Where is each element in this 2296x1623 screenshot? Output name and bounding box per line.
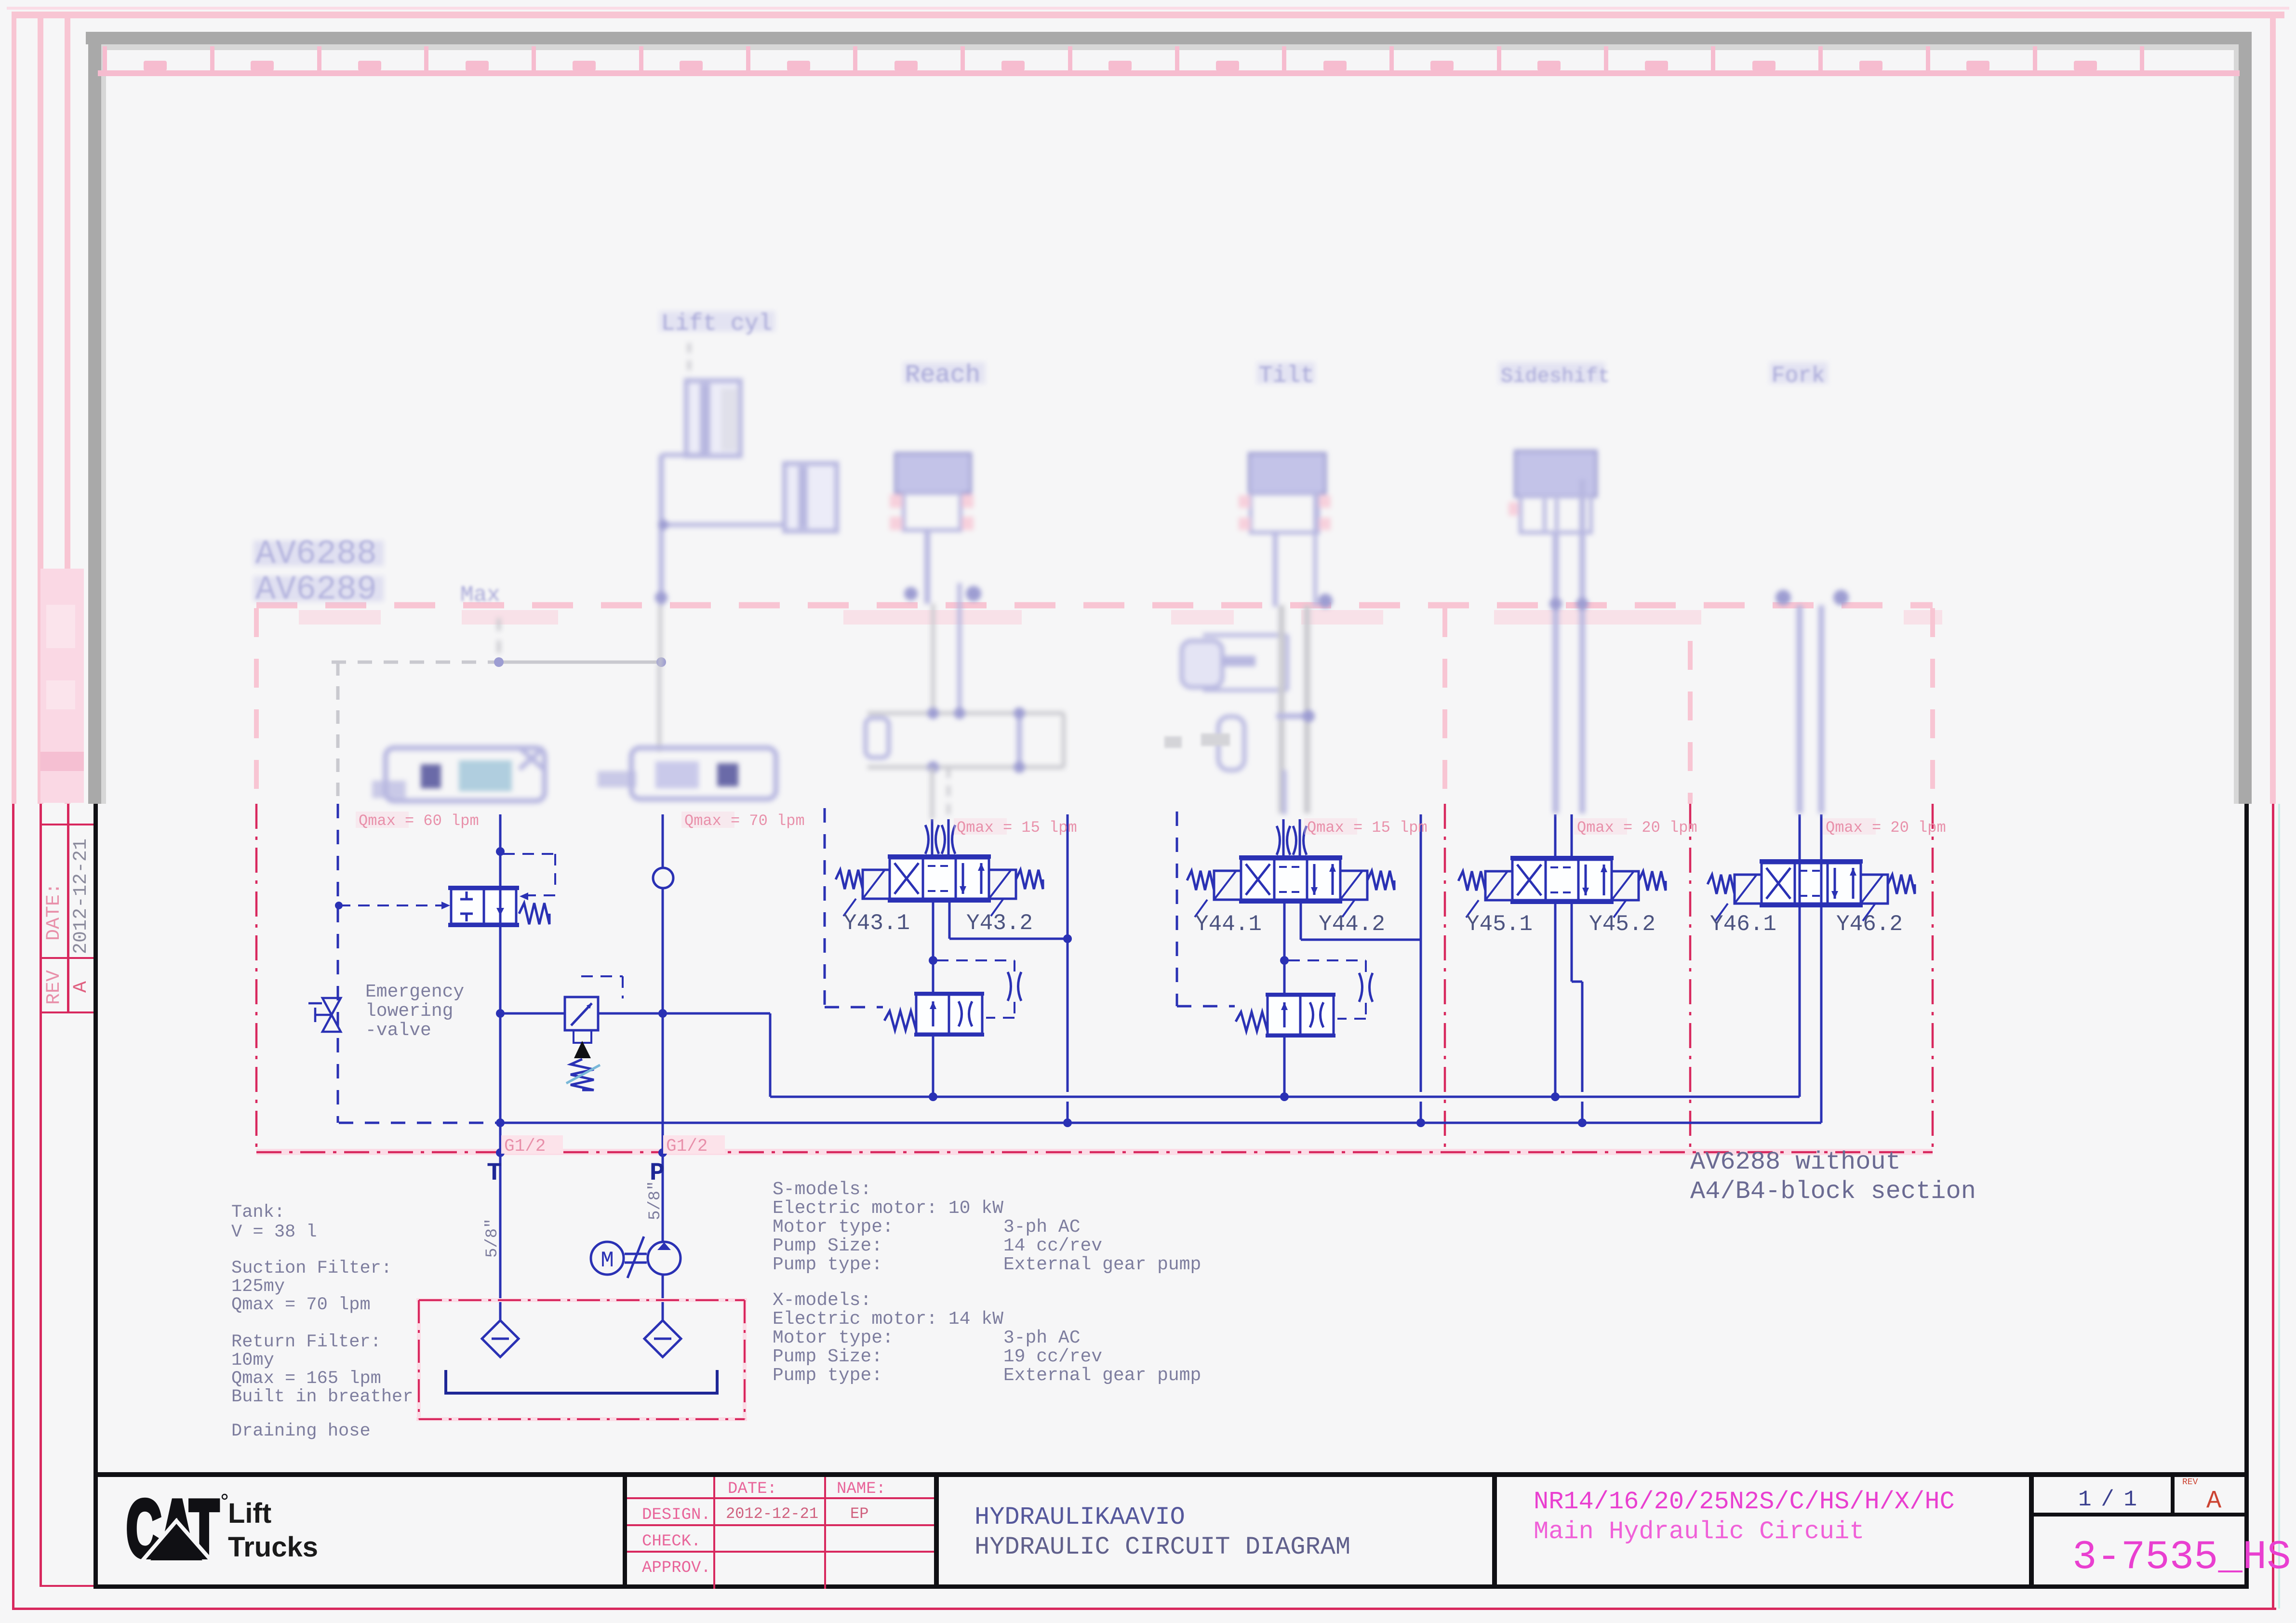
AV block boundary right edge x=4010: [1930, 608, 1935, 804]
valve block Y43 dashed boundary: [824, 808, 826, 1007]
scan wire lift manifold: [663, 523, 786, 527]
valve Y45 left solenoid and spring: [1485, 871, 1512, 900]
AV block boundary left edge x=532: [254, 608, 259, 804]
scan overlay gray frame right band: [2239, 32, 2252, 804]
valve Y44 center cell marks: [1279, 866, 1302, 868]
valve Y44 left solenoid and spring: [1214, 871, 1241, 900]
gear pump P1: [648, 1242, 681, 1275]
svg-text:Y46.1: Y46.1: [1710, 912, 1776, 937]
AV block boundary divider x=3507: [1688, 641, 1693, 804]
svg-text:2012-12-21: 2012-12-21: [726, 1505, 818, 1523]
scan label Tilt: [1257, 362, 1315, 384]
svg-text:Qmax = 20 lpm: Qmax = 20 lpm: [1826, 819, 1946, 837]
node lift pilot junction (washed): [494, 657, 504, 667]
revision table cell lines: [40, 824, 96, 825]
svg-text:APPROV.: APPROV.: [642, 1559, 711, 1577]
valve Y43 center cell marks: [928, 865, 951, 867]
title table crimson lines: [627, 1497, 934, 1499]
node Y45 to return bus: [1578, 1118, 1587, 1127]
svg-text:REV: REV: [43, 970, 65, 1005]
scan washed T riser dashes: [497, 618, 501, 662]
svg-text:Pump type: External: Pump type: External gear pump: [773, 1254, 1201, 1275]
svg-text:G1/2: G1/2: [666, 1136, 707, 1156]
valve Y46 feed lines: [1799, 814, 1801, 904]
scan junction blob: [655, 591, 667, 604]
title block divider (product | number): [2029, 1472, 2034, 1589]
relief valve poppet arrow: [574, 1041, 591, 1058]
svg-text:Tank:: Tank:: [231, 1202, 285, 1223]
scan overlay gray frame top band: [86, 32, 2252, 44]
valve Y43 left solenoid and spring: [863, 870, 890, 899]
svg-text:Suction Filter:: Suction Filter:: [231, 1258, 392, 1278]
node pilot tap on block boundary: [335, 902, 343, 909]
valve block dashed boundary left x=701 (washed above): [336, 662, 340, 804]
svg-text:Return Filter:: Return Filter:: [231, 1332, 381, 1352]
svg-text:HYDRAULIKAAVIO: HYDRAULIKAAVIO: [974, 1503, 1185, 1531]
svg-text:REV: REV: [2182, 1477, 2198, 1487]
node C44 to pressure bus: [1280, 1092, 1289, 1101]
svg-text:Electric motor: 14 kW: Electric motor: 14 kW: [773, 1309, 1003, 1330]
title block divider (titles | product): [1492, 1472, 1497, 1589]
scan reach feed dashes: [930, 767, 934, 819]
drawing frame bottom edge: [93, 1584, 2249, 1589]
svg-text:1 / 1: 1 / 1: [2078, 1487, 2136, 1512]
scan dashed stub under label: [688, 343, 691, 381]
relief valve pilot dashes: [581, 975, 623, 977]
wire Y44 B-line to trunk: [1300, 900, 1302, 940]
svg-text:HYDRAULIC CIRCUIT DIAGRAM: HYDRAULIC CIRCUIT DIAGRAM: [974, 1533, 1350, 1561]
svg-text:DATE:: DATE:: [728, 1480, 777, 1498]
AV block boundary top dashed line (washed): [256, 602, 1933, 609]
outer page border left: [12, 18, 16, 804]
scan lift cylinder 1: [686, 381, 740, 456]
wire Y44 trunk x=2948: [1420, 814, 1422, 1092]
wire Y45 A-line to pressure bus: [1554, 901, 1557, 1097]
port label G1/2 (T): [501, 1135, 563, 1154]
svg-text:NAME:: NAME:: [837, 1480, 886, 1498]
drawing frame left edge: [93, 804, 98, 1589]
ruler ticks and column number blobs: [103, 46, 107, 71]
wire T riser x=1038: [499, 814, 502, 887]
svg-text:Trucks: Trucks: [228, 1531, 318, 1563]
svg-text:A: A: [70, 981, 92, 993]
flow label Qmax = 70 lpm: [681, 811, 734, 828]
svg-text:Motor type: 3-ph AC: Motor type: 3-ph AC: [773, 1328, 1081, 1348]
title block divider (table | titles): [934, 1472, 939, 1589]
scan tilt rod lines: [1273, 532, 1278, 607]
valve Y46 center cell marks: [1800, 870, 1823, 872]
svg-text:V = 38 l: V = 38 l: [231, 1222, 317, 1242]
svg-text:NR14/16/20/25N2S/C/HS/H/X/HC: NR14/16/20/25N2S/C/HS/H/X/HC: [1534, 1488, 1955, 1516]
valve Y45 parallel-arrows cell: [1585, 865, 1587, 895]
scan reach cylinder cap: [895, 453, 971, 493]
svg-text:Lift: Lift: [228, 1498, 271, 1529]
scan text AV6288: [254, 541, 384, 566]
drawing frame right edge: [2244, 804, 2249, 1589]
outer page border bottom: [12, 1608, 2276, 1610]
flow label Qmax = 20 lpm: [1823, 818, 1876, 835]
port label G1/2 (P): [663, 1135, 725, 1154]
svg-text:Main Hydraulic Circuit: Main Hydraulic Circuit: [1534, 1517, 1865, 1546]
valve V1 riser through right cell: [499, 889, 502, 924]
svg-text:CHECK.: CHECK.: [642, 1532, 701, 1551]
flow label Qmax = 15 lpm: [954, 818, 1007, 835]
svg-text:M: M: [601, 1248, 614, 1273]
svg-text:AV6289: AV6289: [255, 571, 377, 609]
revision sidebar bottom stub: [40, 1585, 95, 1587]
outer page border top (washed pink): [7, 7, 2289, 10]
valve V1 spring: [519, 903, 549, 924]
revision sidebar line x=141: [65, 18, 70, 804]
compensator valve C43 body: [916, 995, 982, 1034]
restrictor in C44 pilot: [1359, 973, 1373, 1002]
svg-text:Tilt: Tilt: [1259, 363, 1314, 389]
svg-text:Qmax = 60 lpm: Qmax = 60 lpm: [359, 812, 479, 830]
compensator C43 pilot dashes: [937, 959, 1015, 961]
wire C43 to pressure bus: [932, 1034, 934, 1097]
compensator C44 pilot dashes: [1288, 959, 1366, 961]
scan washed lift riser: [658, 605, 662, 665]
flow label Qmax = 60 lpm: [356, 811, 409, 828]
svg-text:Y43.1: Y43.1: [843, 911, 910, 936]
title block top line: [93, 1472, 2249, 1477]
valve Y44 feed restrictors: [1282, 819, 1285, 859]
svg-text:EP: EP: [850, 1505, 868, 1523]
compensator C43 spring: [884, 1011, 916, 1030]
scan reach rod: [924, 530, 930, 604]
restrictor above Y44 left: [1277, 826, 1290, 855]
valve block dashed boundary bottom y=2330: [339, 1122, 499, 1124]
scan sideshift cylinder cap: [1515, 451, 1596, 496]
title block number cell top line: [2029, 1513, 2249, 1517]
scan sideshift risers: [1553, 532, 1559, 813]
scan lowering valve blob: [386, 748, 545, 801]
scan label Sideshift: [1499, 362, 1605, 384]
svg-text:125my: 125my: [231, 1277, 285, 1297]
svg-text:10my: 10my: [231, 1350, 274, 1370]
scan label Reach: [903, 362, 985, 384]
node Y45 to pressure bus: [1551, 1092, 1560, 1101]
valve Y43 parallel-arrows cell: [962, 863, 964, 894]
svg-text:2012-12-21: 2012-12-21: [70, 838, 92, 954]
ruler pink line: [98, 70, 2240, 76]
svg-text:Built in breather: Built in breather: [231, 1387, 413, 1407]
node T riser relief line junction: [496, 1009, 505, 1018]
svg-text:A4/B4-block section: A4/B4-block section: [1690, 1177, 1976, 1206]
valve Y46 parallel-arrows cell: [1834, 868, 1836, 899]
svg-text:Qmax = 20 lpm: Qmax = 20 lpm: [1577, 819, 1697, 837]
svg-text:Y46.2: Y46.2: [1836, 912, 1903, 937]
svg-text:Pump Size: 19 cc/rev: Pump Size: 19 cc/rev: [773, 1346, 1102, 1367]
wire P riser x=1375: [662, 814, 664, 1241]
scan tilt risers washed: [1279, 605, 1285, 813]
svg-text:Max: Max: [460, 583, 500, 608]
tank boundary dash-dot rectangle: [416, 1298, 747, 1302]
valve block Y44 dashed boundary: [1176, 811, 1178, 1006]
wire pressure bus y=2276: [770, 1096, 1800, 1098]
valve Y46 right solenoid and spring: [1861, 875, 1888, 904]
scan tilt cylinder cap: [1249, 453, 1325, 493]
svg-text:Reach: Reach: [905, 361, 980, 389]
node P riser relief junction: [658, 1009, 667, 1018]
node Y43 trunk to return bus: [1063, 1118, 1072, 1127]
svg-text:Sideshift: Sideshift: [1501, 365, 1610, 388]
node T riser pilot tap: [496, 847, 505, 856]
svg-text:5/8": 5/8": [483, 1218, 502, 1258]
AV block boundary bottom dash-dot line y=2391: [256, 1149, 1933, 1155]
svg-text:Y43.2: Y43.2: [966, 911, 1033, 936]
node lift supply junction (washed): [656, 657, 666, 667]
svg-text:AV6288: AV6288: [255, 535, 377, 573]
scan lift cylinder 2: [785, 464, 837, 531]
CAT logo registered mark: [222, 1494, 227, 1499]
compensator C44 spring: [1236, 1012, 1268, 1031]
svg-text:Draining hose: Draining hose: [231, 1421, 371, 1441]
flow label Qmax = 15 lpm: [1304, 818, 1357, 835]
svg-text:Qmax = 15 lpm: Qmax = 15 lpm: [1307, 819, 1428, 837]
valve Y45 crossed-arrows cell: [1517, 865, 1541, 895]
wire P feed drop x=1598: [769, 1013, 772, 1097]
scan text AV6289: [254, 576, 384, 601]
svg-text:Y44.2: Y44.2: [1319, 912, 1385, 937]
svg-text:3-7535_HS: 3-7535_HS: [2072, 1535, 2291, 1581]
valve Y44 crossed-arrows cell: [1246, 864, 1270, 895]
flow label Qmax = 20 lpm: [1574, 818, 1627, 835]
scan fork port blobs: [1775, 590, 1791, 605]
scan P-line valve blob: [631, 748, 776, 799]
scan wash over revision sidebar: [40, 569, 84, 803]
valve Y43 feed restrictors: [931, 819, 934, 858]
suction filter F1 (diamond): [482, 1320, 519, 1357]
wire Y44 A-line down: [1283, 900, 1286, 996]
scan tilt check manifold: [1203, 633, 1287, 637]
svg-text:Qmax = 70 lpm: Qmax = 70 lpm: [684, 812, 805, 830]
svg-text:Y45.1: Y45.1: [1466, 912, 1533, 937]
wire Y43 A-line down: [932, 899, 934, 995]
svg-text:lowering: lowering: [365, 1001, 453, 1022]
scan sideshift cylinder body: [1521, 496, 1591, 532]
valve V1 pilot dashed line from block edge: [339, 905, 447, 906]
valve Y45 feed lines: [1554, 814, 1557, 860]
valve Y43 right solenoid and spring: [989, 870, 1016, 899]
proportional lowering valve V1 body: [451, 889, 516, 924]
motor-pump coupling: [625, 1253, 647, 1255]
emergency lowering valve: [308, 998, 341, 1032]
svg-text:Qmax = 15 lpm: Qmax = 15 lpm: [957, 819, 1077, 837]
svg-text:Qmax = 165 lpm: Qmax = 165 lpm: [231, 1369, 381, 1389]
electric motor M1: [591, 1242, 624, 1275]
scan reach manifold: [868, 711, 1064, 715]
tank T1: [446, 1370, 717, 1393]
node Y43 trunk junction: [1063, 934, 1072, 943]
scan label Fork: [1770, 362, 1828, 384]
svg-text:T: T: [487, 1159, 502, 1187]
valve V1 pilot dashed rectangle: [503, 853, 555, 855]
title block divider (logo | table): [623, 1472, 627, 1589]
node Y44 trunk to return bus: [1416, 1118, 1425, 1127]
valve Y46 left solenoid and spring: [1735, 875, 1762, 904]
outer page border right: [2270, 18, 2276, 804]
svg-text:Emergency: Emergency: [365, 982, 464, 1002]
scan misc gray dashes: [1164, 736, 1182, 748]
svg-text:DESIGN.: DESIGN.: [642, 1506, 711, 1524]
scan overlay gray frame left band: [88, 32, 101, 804]
valve Y43 crossed-arrows cell: [894, 863, 919, 894]
restrictor above Y43 left: [925, 825, 939, 854]
pressure relief valve body: [565, 997, 598, 1030]
node T riser return bus junction: [496, 1118, 505, 1127]
node Y44 compensator pilot tap: [1280, 956, 1289, 965]
svg-text:Y44.1: Y44.1: [1195, 912, 1262, 937]
svg-text:Pump type: External: Pump type: External gear pump: [773, 1365, 1201, 1386]
scan reach lines to manifold: [958, 583, 962, 713]
valve Y45 center cell marks: [1550, 866, 1574, 868]
wire Y43 trunk x=2215: [1067, 814, 1069, 1092]
valve V1 closed-port marks: [466, 891, 468, 900]
solenoid valve Y43 body: [890, 858, 989, 899]
scan fork risers: [1797, 605, 1803, 813]
node P riser G1/2 port: [658, 1148, 667, 1157]
valve V1 flow arrow on riser: [496, 908, 504, 916]
node C43 to pressure bus: [929, 1092, 937, 1101]
wire Y43 B-line to trunk: [948, 899, 951, 939]
relief valve spring: [571, 1059, 594, 1090]
valve Y44 right solenoid and spring: [1340, 871, 1367, 900]
svg-text:A: A: [2206, 1487, 2222, 1515]
svg-text:Electric motor: 10 kW: Electric motor: 10 kW: [773, 1198, 1003, 1219]
valve Y44 parallel-arrows cell: [1313, 864, 1316, 895]
check valve B1 on P riser: [653, 868, 673, 888]
return filter F2 (diamond): [644, 1320, 681, 1357]
valve block dashed boundary top y=1374 (washed): [332, 661, 499, 664]
solenoid valve Y45 body: [1512, 860, 1612, 900]
wire return bus y=2330: [500, 1122, 1821, 1124]
scan wire from cylinder 1: [661, 453, 707, 457]
relief valve lower housing: [574, 1030, 591, 1043]
svg-text:Lift cyl: Lift cyl: [661, 311, 772, 337]
svg-text:5/8": 5/8": [646, 1181, 665, 1220]
restrictor in C43 pilot: [1008, 972, 1021, 1001]
svg-text:G1/2: G1/2: [504, 1136, 546, 1156]
wire Y46 A-line corner to pressure bus: [1799, 904, 1801, 1097]
compensator valve C44 body: [1268, 996, 1334, 1035]
title block divider (page | rev): [2171, 1472, 2175, 1516]
revision sidebar line x=84: [38, 18, 43, 804]
svg-text:Motor type: 3-ph AC: Motor type: 3-ph AC: [773, 1217, 1081, 1237]
svg-text:Y45.2: Y45.2: [1589, 912, 1655, 937]
svg-text:AV6288 without: AV6288 without: [1690, 1148, 1901, 1176]
CAT logo triangle: [142, 1521, 212, 1561]
solenoid valve Y44 body: [1241, 859, 1340, 900]
svg-text:Fork: Fork: [1772, 363, 1825, 388]
wire Y45 B-line jog to return bus: [1571, 901, 1573, 982]
svg-text:DATE:: DATE:: [43, 883, 65, 941]
wire relief line T to P y=2103: [500, 1012, 565, 1015]
AV block boundary divider x=2998: [1442, 608, 1447, 804]
wire Y46 B-line corner to return bus: [1820, 904, 1823, 1123]
svg-text:S-models:: S-models:: [773, 1179, 871, 1200]
solenoid valve Y46 body: [1762, 863, 1861, 904]
svg-text:-valve: -valve: [365, 1020, 431, 1041]
node T riser G1/2 port: [496, 1148, 505, 1157]
wire C44 to pressure bus: [1283, 1035, 1286, 1097]
svg-text:X-models:: X-models:: [773, 1290, 871, 1311]
svg-text:Qmax = 70 lpm: Qmax = 70 lpm: [231, 1295, 371, 1315]
scan tilt cylinder body: [1251, 493, 1318, 532]
svg-text:Pump Size: 14 cc/rev: Pump Size: 14 cc/rev: [773, 1236, 1102, 1256]
valve Y46 crossed-arrows cell: [1766, 868, 1790, 899]
scan label Lift cyl: [659, 311, 775, 332]
node Y43 compensator pilot tap: [929, 956, 937, 965]
valve Y45 right solenoid and spring: [1612, 871, 1639, 900]
scan reach cylinder body: [904, 493, 961, 530]
